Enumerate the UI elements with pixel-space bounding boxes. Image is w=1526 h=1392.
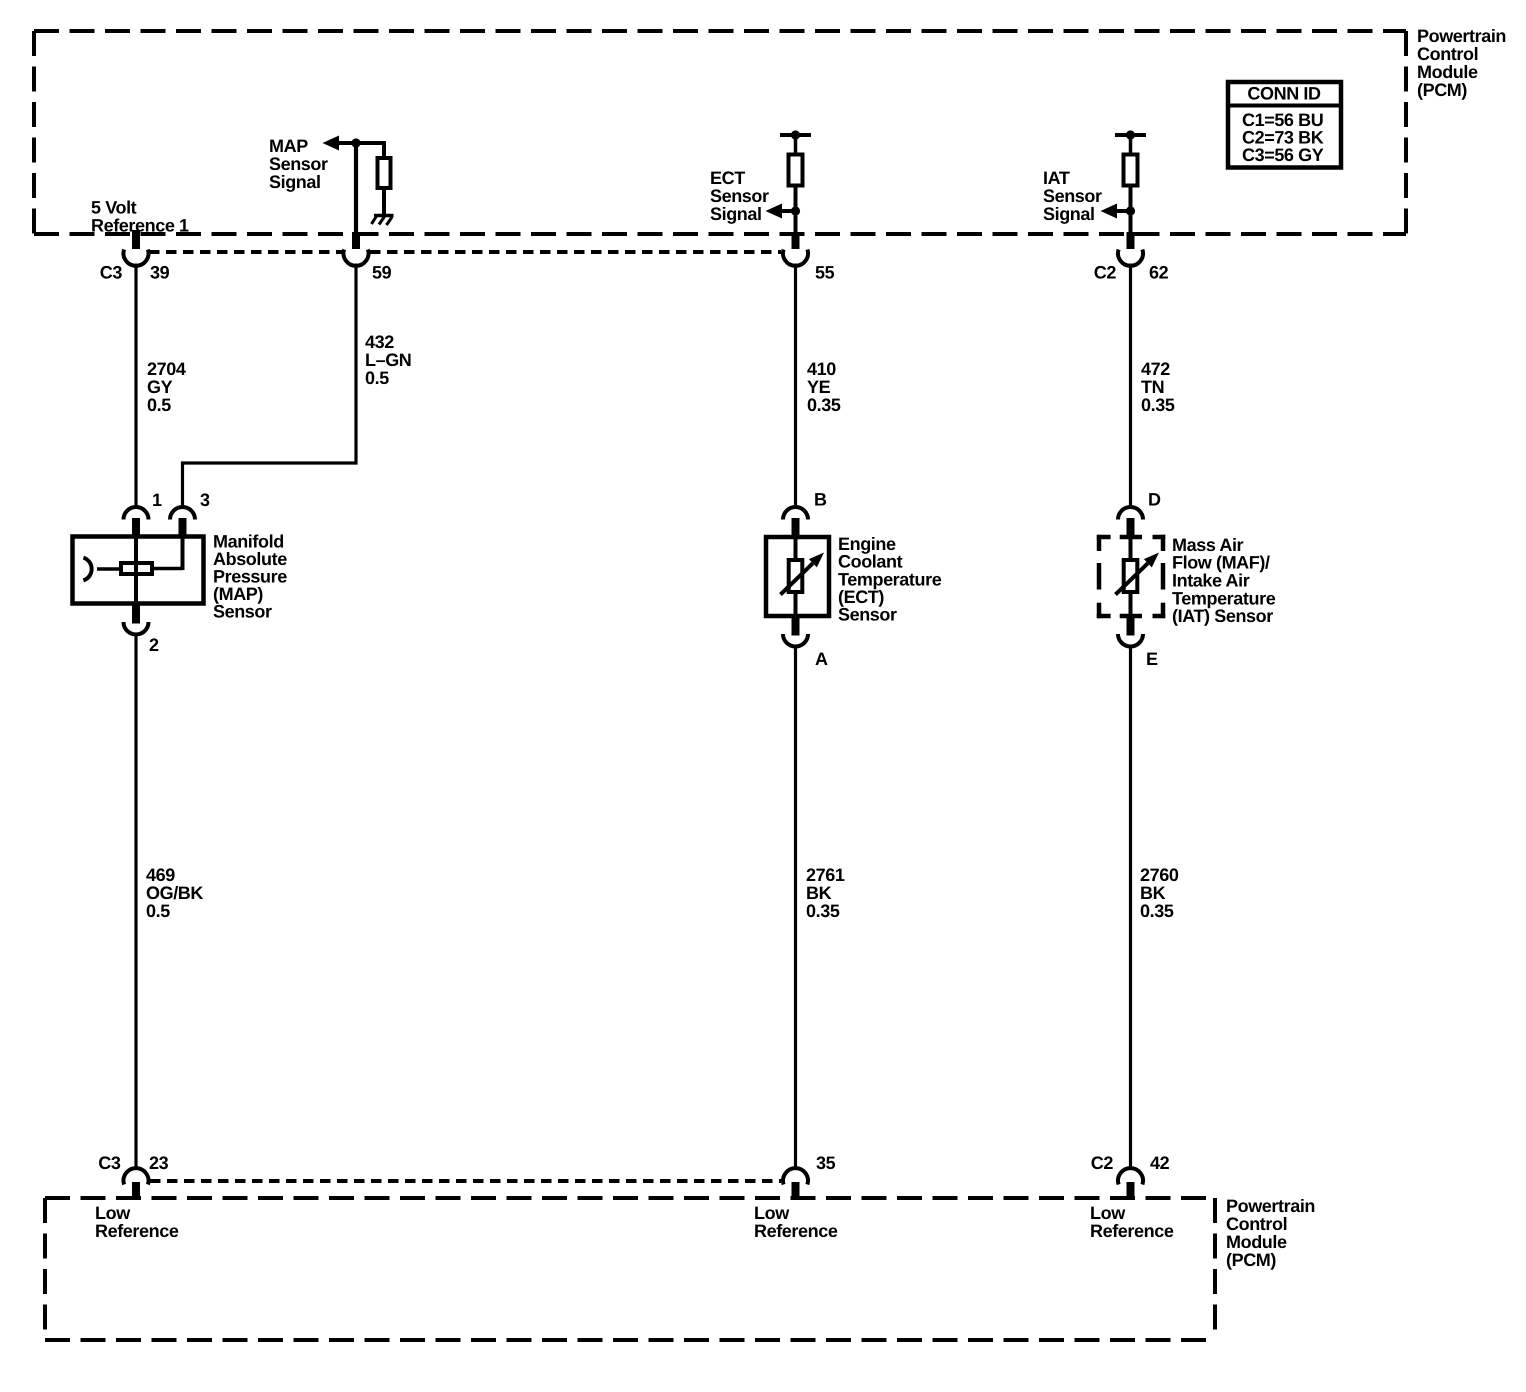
svg-text:Reference: Reference: [95, 1221, 179, 1241]
svg-text:0.5: 0.5: [365, 368, 389, 388]
MAF/IAT sensor dashed box: [1097, 535, 1111, 540]
ECT sensor connector pin A: [792, 616, 800, 636]
svg-text:3: 3: [200, 490, 210, 510]
svg-text:TN: TN: [1141, 377, 1164, 397]
svg-text:C3: C3: [100, 263, 123, 283]
wire 410 YE 0.35: [794, 264, 797, 507]
svg-text:B: B: [814, 490, 827, 510]
svg-text:39: 39: [150, 263, 170, 283]
junction dot: MAP signal node: [351, 138, 360, 147]
svg-text:2761: 2761: [806, 865, 845, 885]
svg-text:Control: Control: [1226, 1214, 1287, 1234]
svg-text:2: 2: [149, 635, 159, 655]
IAT sensor connector pin E: [1127, 616, 1135, 636]
IAT sensor connector pin D: [1118, 507, 1143, 520]
IAT internal wire: [1129, 538, 1133, 615]
svg-text:62: 62: [1149, 263, 1169, 283]
svg-text:CONN ID: CONN ID: [1247, 84, 1321, 104]
in-line harness connector (top, dotted): [149, 250, 342, 254]
svg-text:C2: C2: [1094, 263, 1117, 283]
svg-text:469: 469: [146, 865, 175, 885]
svg-text:0.5: 0.5: [146, 901, 170, 921]
svg-text:Signal: Signal: [1043, 204, 1095, 224]
resistor: PCM internal pull-up (IAT): [1115, 133, 1146, 137]
svg-text:472: 472: [1141, 359, 1170, 379]
MAP pressure port symbol: [83, 558, 91, 581]
wire 472 TN 0.35: [1129, 264, 1132, 507]
svg-text:Reference: Reference: [1090, 1221, 1174, 1241]
svg-text:L–GN: L–GN: [365, 350, 411, 370]
wire 432 L-GN 0.5: [183, 264, 357, 507]
svg-text:C3: C3: [98, 1153, 121, 1173]
svg-text:Signal: Signal: [710, 204, 762, 224]
svg-text:Module: Module: [1417, 62, 1478, 82]
svg-text:0.35: 0.35: [807, 395, 841, 415]
MAP internal wire pin1-pin2: [134, 536, 138, 604]
MAP sensor connector pin 3: [170, 507, 195, 520]
ECT internal wire: [794, 538, 798, 615]
svg-text:5 Volt: 5 Volt: [91, 198, 137, 218]
resistor: PCM internal pull-up (MAP): [382, 141, 386, 158]
ECT thermistor: [789, 560, 803, 592]
svg-text:Powertrain: Powertrain: [1417, 26, 1506, 46]
resistor: PCM internal pull-up (ECT): [780, 133, 811, 137]
in-line harness connector (bottom, dotted): [150, 1179, 781, 1183]
svg-text:D: D: [1148, 490, 1161, 510]
svg-text:2760: 2760: [1140, 865, 1179, 885]
svg-text:ECT: ECT: [710, 168, 745, 188]
svg-text:Sensor: Sensor: [710, 186, 769, 206]
svg-text:Sensor: Sensor: [1043, 186, 1102, 206]
svg-text:BK: BK: [806, 883, 832, 903]
wire 2761 BK 0.35: [794, 648, 797, 1171]
svg-text:Low: Low: [95, 1203, 131, 1223]
MAP sensor box: [73, 537, 204, 604]
svg-text:BK: BK: [1140, 883, 1166, 903]
CONN ID table: [1228, 82, 1341, 168]
svg-text:C3=56 GY: C3=56 GY: [1242, 145, 1324, 165]
ground: PCM internal: [374, 214, 394, 218]
svg-text:410: 410: [807, 359, 836, 379]
junction dot: IAT signal node: [1126, 206, 1135, 215]
svg-text:0.35: 0.35: [1140, 901, 1174, 921]
MAP transducer resistor: [121, 563, 152, 574]
svg-text:432: 432: [365, 332, 394, 352]
svg-text:E: E: [1146, 649, 1158, 669]
connector pin 35: [783, 1168, 808, 1184]
connector C3 pin 39: [132, 230, 140, 249]
connector C2 pin 62: [1127, 232, 1135, 249]
svg-text:Module: Module: [1226, 1232, 1287, 1252]
ECT sensor box: [766, 537, 829, 616]
svg-text:55: 55: [815, 263, 835, 283]
wire 2704 GY 0.5: [134, 264, 137, 507]
wire 2760 BK 0.35: [1129, 648, 1132, 1171]
svg-text:Signal: Signal: [269, 172, 321, 192]
svg-text:2704: 2704: [147, 359, 186, 379]
svg-text:MAP: MAP: [269, 136, 308, 156]
PCM (top) dashed box: [34, 29, 1406, 33]
connector pin 59: [352, 232, 360, 249]
junction dot: ECT signal node: [791, 206, 800, 215]
svg-text:0.35: 0.35: [806, 901, 840, 921]
svg-text:C2: C2: [1091, 1153, 1114, 1173]
svg-text:23: 23: [149, 1153, 169, 1173]
MAP sensor connector pin 1: [124, 507, 149, 520]
ECT signal arrow: [781, 209, 796, 213]
svg-text:Reference 1: Reference 1: [91, 216, 189, 236]
svg-text:Reference: Reference: [754, 1221, 838, 1241]
svg-text:A: A: [815, 649, 828, 669]
wire: MAP signal to pin 59 (PCM internal): [354, 141, 358, 232]
svg-text:59: 59: [372, 263, 392, 283]
svg-text:Low: Low: [754, 1203, 790, 1223]
svg-text:YE: YE: [807, 377, 831, 397]
svg-text:1: 1: [152, 490, 162, 510]
svg-text:(PCM): (PCM): [1417, 80, 1467, 100]
MAP signal arrow: [337, 141, 386, 145]
svg-text:0.5: 0.5: [147, 395, 171, 415]
svg-text:OG/BK: OG/BK: [146, 883, 203, 903]
svg-text:0.35: 0.35: [1141, 395, 1175, 415]
svg-text:42: 42: [1150, 1153, 1170, 1173]
IAT thermistor: [1124, 560, 1138, 592]
svg-text:Control: Control: [1417, 44, 1478, 64]
svg-text:(IAT) Sensor: (IAT) Sensor: [1172, 606, 1273, 626]
ECT sensor connector pin B: [783, 507, 808, 520]
IAT signal arrow: [1116, 209, 1131, 213]
svg-text:Sensor: Sensor: [838, 605, 897, 625]
PCM (bottom) dashed box: [45, 1196, 1215, 1200]
svg-text:(PCM): (PCM): [1226, 1250, 1276, 1270]
wire 469 OG/BK 0.5: [134, 636, 137, 1171]
svg-text:Sensor: Sensor: [269, 154, 328, 174]
svg-text:Powertrain: Powertrain: [1226, 1196, 1315, 1216]
svg-text:35: 35: [816, 1153, 836, 1173]
svg-text:Low: Low: [1090, 1203, 1126, 1223]
connector C3 pin 23: [124, 1168, 149, 1184]
svg-text:IAT: IAT: [1043, 168, 1070, 188]
MAP sensor connector pin 2: [132, 604, 140, 624]
svg-text:GY: GY: [147, 377, 173, 397]
svg-text:Sensor: Sensor: [213, 602, 272, 622]
connector pin 55: [792, 232, 800, 249]
connector C2 pin 42: [1118, 1168, 1143, 1184]
